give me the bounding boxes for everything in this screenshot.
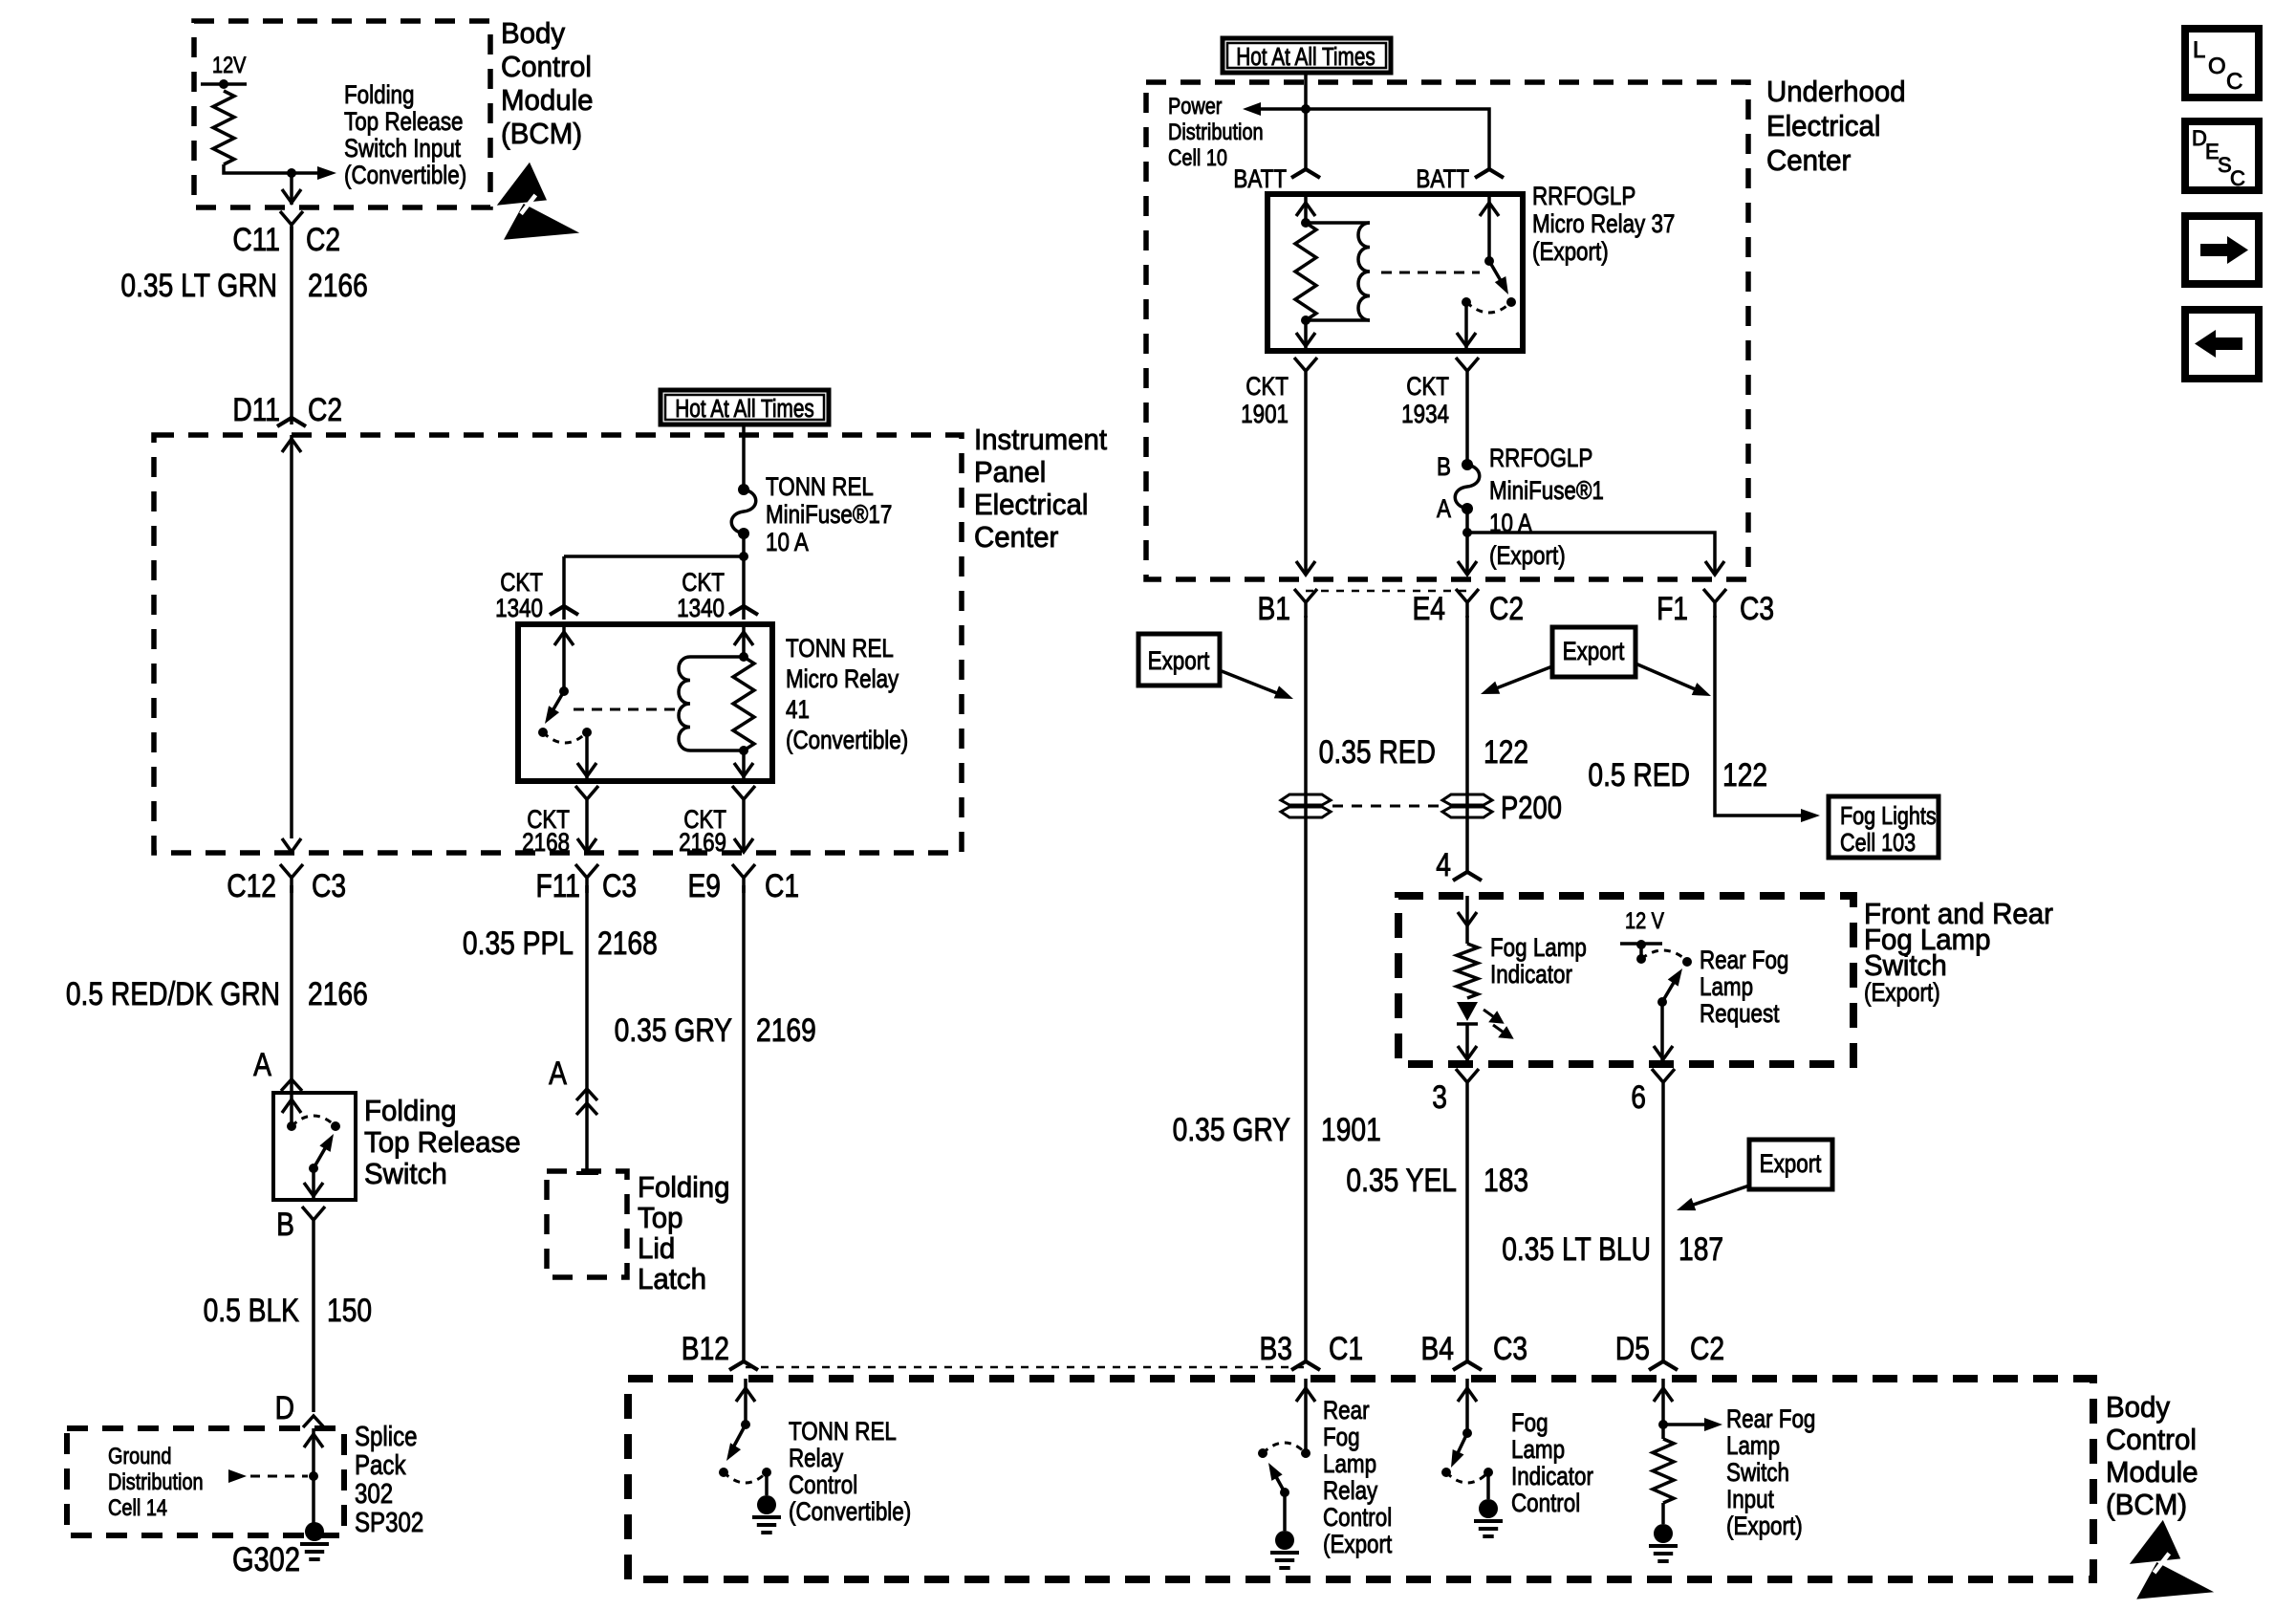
- connector B4 chevron: [1453, 1361, 1482, 1370]
- svg-text:CKT1340: CKT1340: [677, 569, 725, 622]
- svg-text:(Export): (Export): [1864, 979, 1940, 1007]
- svg-text:3: 3: [1432, 1079, 1447, 1116]
- pass-through connector P200 (right): [1442, 794, 1492, 817]
- tonn rel control throw arc: [724, 1472, 767, 1483]
- junction: fuse output node: [739, 552, 748, 561]
- svg-text:Fog LightsCell 103: Fog LightsCell 103: [1840, 802, 1937, 857]
- nav box next arrow: [2185, 216, 2259, 284]
- callout box: Hot At All Times (UHEC): [1223, 38, 1391, 73]
- tonn rel control ground dot: [757, 1495, 776, 1514]
- svg-text:Hot At All Times: Hot At All Times: [675, 395, 814, 423]
- relay coil branch: [1306, 221, 1370, 225]
- relay coil leg wire: [1304, 194, 1308, 223]
- switch input ground stem: [1661, 1503, 1665, 1524]
- tonn rel control ground stem: [765, 1472, 769, 1495]
- svg-text:B4: B4: [1420, 1331, 1454, 1367]
- module box: Body Control Module (BCM) top-left: [194, 21, 490, 207]
- svg-text:InstrumentPanelElectricalCente: InstrumentPanelElectricalCenter: [974, 424, 1108, 554]
- svg-text:2168: 2168: [597, 925, 658, 962]
- wire: branch to relay contact feed: [564, 555, 744, 558]
- switch moving arm: [314, 1143, 328, 1168]
- rear fog relay control contact (wire): [1301, 1448, 1310, 1458]
- svg-text:FoldingTop ReleaseSwitch Input: FoldingTop ReleaseSwitch Input(Convertib…: [344, 81, 466, 189]
- relay switch feed wire: [1487, 194, 1491, 261]
- svg-text:C1: C1: [765, 868, 799, 904]
- ground symbol (fog lamp indicator): [1474, 1519, 1503, 1523]
- svg-text:0.35 GRY: 0.35 GRY: [1173, 1112, 1291, 1148]
- svg-text:C3: C3: [602, 868, 637, 904]
- resistor: fog lamp indicator: [1457, 944, 1478, 998]
- connector B3 chevron: [1291, 1361, 1320, 1370]
- leader arrow to C2 wire: [1491, 666, 1552, 690]
- svg-text:E9: E9: [687, 868, 721, 904]
- module box: Front and Rear Fog Lamp Switch: [1398, 896, 1853, 1064]
- svg-text:Export: Export: [1148, 647, 1210, 675]
- relay coil return wire: [742, 751, 746, 781]
- fog lamp indicator ground dot: [1479, 1499, 1498, 1518]
- connector CKT 2169 fork: [732, 786, 755, 815]
- svg-text:C2: C2: [306, 222, 340, 258]
- connector D5 chevron: [1649, 1361, 1678, 1370]
- switch input node: [1658, 1420, 1668, 1429]
- svg-text:2166: 2166: [308, 268, 368, 304]
- relay switched output wire: [585, 732, 589, 781]
- svg-text:A: A: [549, 1055, 567, 1092]
- svg-text:0.35 LT GRN: 0.35 LT GRN: [120, 268, 277, 304]
- nav box previous arrow: [2185, 310, 2259, 379]
- connector F1 fork: [1703, 589, 1726, 618]
- wire: indicator return: [1465, 1024, 1469, 1064]
- svg-text:Export: Export: [1563, 638, 1625, 665]
- svg-text:12 V: 12 V: [1625, 907, 1664, 933]
- svg-text:C12: C12: [227, 868, 276, 904]
- svg-text:Export: Export: [1760, 1150, 1822, 1178]
- svg-text:122: 122: [1484, 734, 1528, 771]
- junction: battery feed node: [1301, 104, 1310, 114]
- resistor: rear fog lamp switch input: [1653, 1439, 1674, 1503]
- connector D11 chevron: [277, 418, 306, 426]
- wire: F1 to fog lights reference: [1715, 616, 1805, 816]
- wire: CKT 1934 to fuse: [1465, 386, 1469, 465]
- svg-text:B: B: [1437, 453, 1451, 481]
- svg-text:122: 122: [1722, 757, 1767, 794]
- svg-text:E4: E4: [1412, 591, 1445, 627]
- svg-text:0.35 GRY: 0.35 GRY: [615, 1012, 733, 1049]
- connector B1 fork: [1294, 589, 1317, 618]
- connector pin 6 fork: [1652, 1069, 1675, 1098]
- rear fog lamp request fixed contact: [1636, 954, 1646, 964]
- switch input ground dot: [1654, 1524, 1673, 1543]
- wire: resistor to output node: [224, 164, 292, 173]
- ground symbol (rear fog relay): [1270, 1551, 1299, 1555]
- svg-text:C3: C3: [312, 868, 346, 904]
- callout box: Export (187 wire): [1749, 1140, 1832, 1189]
- splice junction dot: [309, 1471, 318, 1481]
- svg-text:C: C: [2230, 166, 2245, 190]
- LED light rays: [1484, 1010, 1511, 1037]
- wire into splice pack SP302: [312, 1428, 315, 1526]
- svg-text:RearFogLampRelayControl(Export: RearFogLampRelayControl(Export: [1323, 1397, 1392, 1558]
- relay actuator dashed link: [574, 708, 679, 711]
- rear fog request right contact: [1682, 957, 1692, 967]
- svg-text:Front and RearFog LampSwitch: Front and RearFog LampSwitch: [1864, 898, 2053, 982]
- svg-text:BATT: BATT: [1233, 165, 1287, 193]
- fuse TONN REL MiniFuse 17 10A: [731, 490, 756, 533]
- svg-text:B: B: [276, 1207, 294, 1243]
- relay coil feed wire: [742, 624, 746, 657]
- wire: 0.35 PPL circuit 2168: [585, 885, 589, 1173]
- wire: 0.5 RED/DK GRN circuit 2166 to switch: [290, 885, 293, 1093]
- svg-text:F1: F1: [1657, 591, 1688, 627]
- relay switch feed wire: [562, 624, 566, 691]
- svg-text:0.5 RED: 0.5 RED: [1588, 757, 1690, 794]
- svg-text:0.35 LT BLU: 0.35 LT BLU: [1502, 1231, 1651, 1268]
- LED: fog lamp indicator: [1457, 1002, 1478, 1021]
- connector CKT 1934 fork: [1456, 358, 1479, 386]
- module box: Instrument Panel Electrical Center: [154, 435, 962, 853]
- ground G302 symbol: [300, 1542, 329, 1546]
- svg-text:2166: 2166: [308, 976, 368, 1012]
- relay switch throw arc: [1466, 302, 1511, 313]
- resistor: folding top release switch input pull-up: [213, 91, 234, 164]
- svg-text:Rear FogLampSwitchInput(Export: Rear FogLampSwitchInput(Export): [1726, 1405, 1815, 1540]
- svg-text:D11: D11: [232, 392, 280, 428]
- arrow: signal into BCM logic: [292, 171, 321, 175]
- connector tie line B12-B3: [746, 1366, 1306, 1369]
- svg-text:C2: C2: [1489, 591, 1524, 627]
- ground symbol (switch input): [1649, 1544, 1678, 1548]
- svg-text:TONN RELMicro Relay41(Converti: TONN RELMicro Relay41(Convertible): [786, 635, 908, 754]
- svg-text:C11: C11: [232, 222, 280, 258]
- P200 tie dashed line: [1332, 805, 1441, 808]
- wire: 0.35 YEL 183: [1465, 1098, 1469, 1361]
- relay switch pivot: [559, 686, 569, 696]
- switch output wire: [312, 1168, 315, 1200]
- svg-text:1901: 1901: [1321, 1112, 1381, 1148]
- wire: fog lamp indicator control: [1465, 1379, 1469, 1433]
- svg-text:RRFOGLPMiniFuse®110 A(Export): RRFOGLPMiniFuse®110 A(Export): [1489, 445, 1604, 570]
- inline connector double chevron: [576, 1089, 597, 1100]
- fog lamp indicator control contacts: [1441, 1468, 1451, 1477]
- connector CKT 2168 fork: [575, 786, 598, 815]
- connector tie line B1-E4: [1306, 590, 1467, 593]
- svg-text:0.5 BLK: 0.5 BLK: [204, 1293, 300, 1329]
- svg-text:PowerDistributionCell 10: PowerDistributionCell 10: [1168, 93, 1264, 170]
- connector E4 fork: [1456, 589, 1479, 618]
- wire: request output: [1660, 1002, 1664, 1064]
- rear fog relay ground stem: [1283, 1492, 1287, 1531]
- connector F11/C3 fork: [575, 864, 598, 893]
- wire: rear fog lamp relay control: [1304, 1379, 1308, 1453]
- wire: 0.5 BLK circuit 150: [312, 1235, 315, 1412]
- rear fog relay moving arm: [1274, 1473, 1285, 1492]
- terminal bar at latch: [576, 1171, 598, 1175]
- fuse RRFOGLP MiniFuse 1 10A: [1455, 465, 1480, 509]
- svg-text:150: 150: [327, 1293, 372, 1329]
- relay switch pivot: [1484, 256, 1494, 266]
- svg-text:C3: C3: [1493, 1331, 1527, 1367]
- pass-through connector P200 (left): [1281, 794, 1331, 817]
- svg-text:C2: C2: [308, 392, 342, 428]
- svg-text:B3: B3: [1259, 1331, 1292, 1367]
- tonn rel control pivot: [741, 1420, 750, 1429]
- relay coil return wire: [1304, 320, 1308, 351]
- leader arrow to F1 wire: [1635, 664, 1700, 691]
- svg-text:FogLampIndicatorControl: FogLampIndicatorControl: [1511, 1409, 1593, 1517]
- wire into fog lamp indicator: [1465, 896, 1469, 944]
- module box: ground distribution splice pack: [67, 1428, 344, 1535]
- svg-text:B1: B1: [1257, 591, 1290, 627]
- connector pin B fork: [302, 1207, 325, 1235]
- svg-text:187: 187: [1679, 1231, 1723, 1268]
- callout box: Hot At All Times (IPEC): [661, 390, 829, 424]
- relay coil bottom node: [1301, 315, 1310, 325]
- wire: rear fog lamp switch input: [1661, 1379, 1665, 1439]
- leader arrow to B1 wire: [1222, 671, 1282, 695]
- callout box: Export (B1): [1138, 634, 1220, 685]
- connector BATT chevron (left): [1291, 169, 1320, 178]
- 12V contact bar: [1620, 942, 1662, 946]
- svg-text:B12: B12: [682, 1331, 729, 1367]
- wire: 0.35 LT BLU 187: [1661, 1098, 1665, 1361]
- dashed link to splice: [250, 1475, 308, 1478]
- svg-text:CKT1901: CKT1901: [1241, 373, 1289, 428]
- relay resistor (parallel with coil): [733, 657, 754, 751]
- wire: battery feed to TONN REL fuse: [742, 424, 746, 490]
- svg-text:Fog LampIndicator: Fog LampIndicator: [1490, 934, 1587, 989]
- svg-text:F11: F11: [535, 868, 580, 904]
- junction dot on 12V bar: [219, 79, 228, 89]
- relay switch throw arc: [543, 732, 587, 743]
- rear fog relay pivot: [1280, 1488, 1289, 1497]
- relay switch arm: [551, 691, 564, 714]
- wire: branch to relay coil feed: [742, 556, 746, 620]
- svg-text:G302: G302: [232, 1540, 300, 1577]
- wire: battery feed into UHEC: [1304, 73, 1308, 109]
- relay box: TONN REL Micro Relay 41: [518, 624, 772, 781]
- ground symbol (tonn rel control): [752, 1515, 781, 1519]
- svg-text:CKT2169: CKT2169: [679, 806, 726, 857]
- rear fog request throw arc: [1641, 950, 1687, 961]
- 12V supply bar: [201, 82, 247, 86]
- connector CKT 1901 fork: [1294, 358, 1317, 386]
- switch box: Folding Top Release Switch: [273, 1093, 356, 1200]
- node: folding top release switch input: [287, 168, 296, 178]
- wire: 0.35 GRY circuit 2169 to BCM B12: [742, 885, 746, 1361]
- wire: branch to F1: [1467, 533, 1715, 574]
- svg-text:D: D: [275, 1390, 294, 1426]
- svg-text:TONN RELRelayControl(Convertib: TONN RELRelayControl(Convertible): [789, 1418, 911, 1526]
- svg-text:Rear FogLampRequest: Rear FogLampRequest: [1700, 946, 1788, 1028]
- wire: feed to relay contact leg: [1306, 109, 1489, 170]
- svg-text:CKT1934: CKT1934: [1401, 373, 1449, 428]
- svg-text:C2: C2: [1690, 1331, 1724, 1367]
- svg-text:A: A: [253, 1047, 271, 1083]
- wire: E4 branch down: [1465, 533, 1469, 574]
- wire: BCM pin C11 down: [290, 173, 293, 205]
- svg-text:0.5 RED/DK GRN: 0.5 RED/DK GRN: [66, 976, 280, 1012]
- svg-text:0.35 RED: 0.35 RED: [1319, 734, 1436, 771]
- svg-text:0.35 PPL: 0.35 PPL: [463, 925, 574, 962]
- tonn rel control arm: [732, 1425, 746, 1449]
- reference box: Fog Lights Cell 103: [1829, 796, 1939, 858]
- svg-text:FoldingTop ReleaseSwitch: FoldingTop ReleaseSwitch: [364, 1095, 521, 1190]
- svg-text:2169: 2169: [756, 1012, 816, 1049]
- relay switched output wire: [1464, 302, 1468, 351]
- relay switch arm: [1489, 261, 1503, 284]
- switch right contact: [331, 1121, 340, 1131]
- callout box: Export (E4/F1): [1552, 627, 1635, 677]
- wire: fuse output: [742, 533, 746, 556]
- fog lamp indicator control pivot: [1462, 1428, 1472, 1438]
- switch common wire: [290, 1093, 293, 1126]
- arrow: power distribution reference: [1252, 107, 1306, 111]
- wire: feed to relay coil leg: [1304, 109, 1308, 170]
- wire: 2169 to IPEC edge: [742, 815, 746, 849]
- rear fog relay throw arc: [1263, 1443, 1306, 1453]
- wire: TONN REL relay control input: [744, 1379, 747, 1425]
- relay box: RRFOGLP Micro Relay 37: [1267, 194, 1523, 351]
- svg-text:183: 183: [1484, 1163, 1528, 1199]
- connector pin D chevron: [303, 1416, 324, 1427]
- svg-text:L: L: [2193, 37, 2205, 63]
- svg-text:A: A: [1437, 495, 1451, 523]
- relay switch contacts: [538, 728, 548, 737]
- connector pin 3 fork: [1456, 1069, 1479, 1098]
- svg-text:BATT: BATT: [1416, 165, 1469, 193]
- nav box DESC: [2185, 121, 2259, 190]
- relay coil top node: [739, 652, 748, 662]
- svg-text:4: 4: [1436, 847, 1451, 883]
- wire: 2166 through IPEC: [290, 435, 293, 838]
- nav box LOC: [2185, 29, 2259, 98]
- connector pin A chevron: [281, 1079, 302, 1091]
- leader arrow to 187 wire: [1688, 1186, 1749, 1207]
- connector C11/C2 fork: [280, 211, 303, 240]
- svg-text:D5: D5: [1615, 1331, 1650, 1367]
- tonn rel control contacts: [719, 1468, 728, 1477]
- svg-text:O: O: [2208, 54, 2226, 79]
- wire: CKT 1901 down: [1304, 386, 1308, 574]
- svg-text:0.35 YEL: 0.35 YEL: [1346, 1163, 1457, 1199]
- splice SP302 terminal dot: [305, 1522, 324, 1541]
- module box: Underhood Electrical Center: [1146, 82, 1748, 579]
- svg-text:RRFOGLPMicro Relay 37(Export): RRFOGLPMicro Relay 37(Export): [1532, 183, 1675, 266]
- fog lamp indicator control arm: [1457, 1433, 1467, 1455]
- switch pivot contact: [287, 1121, 296, 1131]
- relay switch contacts: [1462, 297, 1471, 307]
- wire: 0.35 LT GRN circuit 2166: [290, 227, 293, 424]
- relay resistor (parallel): [1295, 223, 1316, 320]
- connector C12/C3 fork: [280, 864, 303, 893]
- relay coil top node: [1301, 218, 1310, 228]
- module box: Folding Top Lid Latch: [547, 1171, 627, 1277]
- svg-text:TONN RELMiniFuse®1710 A: TONN RELMiniFuse®1710 A: [766, 473, 892, 556]
- svg-text:SplicePack302SP302: SplicePack302SP302: [355, 1421, 423, 1538]
- svg-text:6: 6: [1631, 1079, 1646, 1116]
- svg-text:BodyControlModule(BCM): BodyControlModule(BCM): [501, 17, 594, 150]
- arrow: ground distribution reference: [228, 1469, 247, 1483]
- relay actuator dashed link: [1381, 272, 1480, 274]
- connector E9/C1 fork: [732, 864, 755, 893]
- arrow: switch input signal: [1663, 1423, 1707, 1426]
- svg-text:GroundDistributionCell 14: GroundDistributionCell 14: [108, 1443, 204, 1520]
- ESD sensitivity symbol (BCM top): [497, 163, 579, 240]
- connector pin 4 chevron: [1453, 872, 1482, 881]
- svg-text:CKT2168: CKT2168: [522, 806, 570, 857]
- module box: Body Control Module (BCM) bottom: [628, 1379, 2093, 1579]
- svg-text:FoldingTopLidLatch: FoldingTopLidLatch: [638, 1171, 730, 1295]
- rear fog relay control contact (open): [1258, 1448, 1267, 1458]
- relay coil branch: [690, 655, 744, 659]
- connector BATT chevron (right): [1475, 169, 1504, 178]
- svg-text:BodyControlModule(BCM): BodyControlModule(BCM): [2106, 1391, 2199, 1521]
- svg-text:Hot At All Times: Hot At All Times: [1236, 43, 1375, 71]
- svg-text:UnderhoodElectricalCenter: UnderhoodElectricalCenter: [1766, 76, 1906, 177]
- rear fog request moving arm: [1662, 981, 1675, 1002]
- svg-text:C3: C3: [1740, 591, 1774, 627]
- wire: E4 red 122 down: [1465, 616, 1469, 872]
- connector B12 chevron: [729, 1361, 758, 1370]
- ESD sensitivity symbol (BCM bottom): [2130, 1520, 2214, 1599]
- svg-text:CKT1340: CKT1340: [495, 569, 543, 622]
- svg-text:P200: P200: [1501, 792, 1562, 826]
- switch throw arc: [292, 1116, 336, 1126]
- switch lower contact: [309, 1164, 318, 1173]
- rear fog request pivot: [1657, 997, 1667, 1007]
- rear fog relay ground dot: [1275, 1531, 1294, 1550]
- fog lamp indicator ground stem: [1486, 1472, 1490, 1499]
- wire: 2168 to IPEC edge: [585, 815, 589, 849]
- fog lamp indicator throw arc: [1446, 1472, 1488, 1483]
- svg-text:12V: 12V: [212, 52, 247, 77]
- svg-text:C1: C1: [1329, 1331, 1363, 1367]
- svg-text:C: C: [2226, 69, 2242, 95]
- wire: fuse output node: [1465, 509, 1469, 533]
- relay coil bottom node: [739, 746, 748, 755]
- wire: B1 gray 1901 down to BCM B3: [1304, 616, 1308, 1361]
